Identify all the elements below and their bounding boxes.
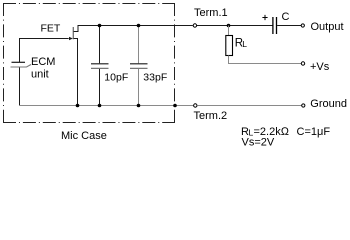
wire: top rail Term.1 to coupling capacitor C <box>197 25 273 27</box>
capacitor: electret capsule bottom plate with diaphragm tick <box>11 65 32 68</box>
junction dot: C1 at top rail <box>98 24 102 28</box>
wire: top rail (drain node) from FET to Term.1 <box>78 25 193 27</box>
terminal Term.1 open circle <box>193 24 196 27</box>
svg-text:Mic Case: Mic Case <box>61 130 107 142</box>
capacitor C2 33pF upper wire <box>138 26 140 64</box>
wire: gate wire / top edge of ECM unit (node gate) <box>19 38 69 40</box>
transistor FET gate arrowhead <box>69 37 73 41</box>
junction dot: C2 at top rail <box>137 24 141 28</box>
capacitor C1 10pF bottom plate <box>91 67 109 69</box>
capacitor C1 10pF top plate <box>91 63 109 65</box>
capacitor C1 10pF upper wire <box>99 26 101 64</box>
polarity plus sign for capacitor C <box>262 15 267 20</box>
svg-text:C=1μF: C=1μF <box>297 126 331 138</box>
capacitor C right plate <box>276 17 278 34</box>
capacitor C2 33pF top plate <box>130 63 148 65</box>
terminal Output open circle <box>301 24 304 27</box>
svg-text:unit: unit <box>31 69 49 81</box>
svg-text:Term.2: Term.2 <box>194 110 228 122</box>
wire: ECM left edge upper (gate to capsule) <box>19 39 21 63</box>
svg-text:ECM: ECM <box>31 56 55 68</box>
svg-text:Term.1: Term.1 <box>194 7 228 19</box>
svg-text:C: C <box>282 11 290 23</box>
junction dot: RL at top rail <box>227 24 231 28</box>
mic case (shield) dash-dot enclosure <box>3 3 175 123</box>
capacitor C left plate <box>272 17 274 34</box>
svg-text:10pF: 10pF <box>104 71 128 83</box>
junction dot: C2 at ground rail <box>137 104 141 108</box>
wire: bottom rail (ground) from capsule to Term.2 <box>19 105 193 107</box>
transistor FET source lead <box>74 39 78 45</box>
capacitor C2 33pF lower wire <box>138 69 140 105</box>
resistor RL body <box>226 36 233 56</box>
svg-text:Vs=2V: Vs=2V <box>242 137 275 149</box>
svg-text:33pF: 33pF <box>143 71 167 83</box>
svg-text:+Vs: +Vs <box>310 61 330 73</box>
wire: C to Output terminal <box>277 25 301 27</box>
svg-text:Output: Output <box>311 21 344 33</box>
capacitor C1 10pF lower wire <box>99 69 101 105</box>
terminal +Vs open circle <box>301 62 304 65</box>
svg-text:FET: FET <box>41 23 61 35</box>
svg-text:L: L <box>242 39 247 49</box>
transistor FET channel bar <box>72 27 74 39</box>
terminal Term.2 open circle <box>194 104 197 107</box>
junction dot: C1 at ground rail <box>98 104 102 108</box>
wire: FET source drop to ground rail <box>77 44 79 105</box>
transistor FET drain lead <box>74 25 79 32</box>
capacitor C2 33pF bottom plate <box>130 67 148 69</box>
wire: RL upper lead <box>228 26 230 36</box>
terminal Ground open circle <box>302 104 305 107</box>
wire: ECM left edge lower (capsule to ground rail) <box>19 68 21 106</box>
wire: ground rail Term.2 to Ground terminal <box>197 105 301 107</box>
svg-text:Ground: Ground <box>310 98 347 110</box>
capacitor: electret capsule top plate <box>12 61 26 63</box>
junction dot: FET source at ground rail <box>76 104 80 108</box>
junction dot: case shield at ground rail <box>173 104 177 108</box>
wire: RL lower lead to +Vs terminal <box>229 56 302 64</box>
